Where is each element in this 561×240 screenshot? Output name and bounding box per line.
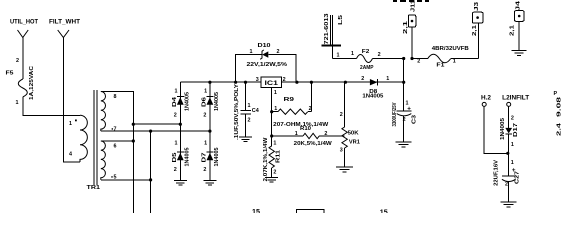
wire secondary pin 5 stub <box>101 179 151 181</box>
svg-text:3300UF/25V: 3300UF/25V <box>392 102 398 126</box>
svg-text:1: 1 <box>274 90 277 96</box>
wire vertical rail x150 <box>150 131 152 213</box>
junction dot <box>344 81 347 84</box>
svg-text:1: 1 <box>204 89 207 95</box>
svg-text:15: 15 <box>252 209 260 213</box>
svg-text:1: 1 <box>175 89 178 95</box>
junction dot <box>402 57 405 60</box>
diode D17 <box>500 116 519 176</box>
svg-text:20K,5%,1/4W: 20K,5%,1/4W <box>294 141 333 147</box>
svg-text:2AMP: 2AMP <box>360 65 374 71</box>
resistor R9 <box>272 82 330 128</box>
svg-text:1A,125VAC: 1A,125VAC <box>29 66 35 100</box>
svg-text:15: 15 <box>380 210 388 214</box>
svg-text:C27: C27 <box>515 171 521 184</box>
junction dot <box>179 123 182 126</box>
junction dot <box>244 81 247 84</box>
svg-text:2,1: 2,1 <box>403 21 409 34</box>
svg-text:R9: R9 <box>284 97 295 103</box>
svg-text:6: 6 <box>114 144 117 150</box>
fuse F5 <box>6 58 36 106</box>
svg-text:L5: L5 <box>338 15 344 25</box>
svg-text:VR1: VR1 <box>349 139 360 145</box>
svg-text:1: 1 <box>16 100 19 106</box>
junction dot <box>208 81 211 84</box>
junction dot <box>132 139 135 142</box>
svg-text:1N4005: 1N4005 <box>185 148 191 167</box>
svg-text:1: 1 <box>248 103 251 109</box>
svg-text:1: 1 <box>337 53 340 59</box>
transformer TR1 secondary top winding <box>101 92 117 133</box>
svg-text:1N4005: 1N4005 <box>214 148 220 167</box>
node UTIL_HOT label <box>10 19 38 26</box>
wire F2 node down to bus <box>403 59 405 83</box>
wire UTIL_HOT down to fuse <box>22 38 24 80</box>
wire secondary pin 8 to vertical rail <box>101 92 134 214</box>
svg-text:8: 8 <box>114 94 117 100</box>
junction dot <box>132 123 135 126</box>
capacitor C3 <box>392 82 418 141</box>
svg-text:2: 2 <box>378 52 381 58</box>
junction dot <box>506 152 509 155</box>
svg-text:D5: D5 <box>172 153 178 163</box>
svg-text:22V,1/2W,5%: 22V,1/2W,5% <box>247 62 288 68</box>
wire IC1 pin 1 down to resistor column <box>271 87 273 146</box>
junction dot <box>270 110 273 113</box>
svg-text:UTIL_HOT: UTIL_HOT <box>10 19 38 26</box>
svg-text:L2INFILT: L2INFILT <box>502 94 529 101</box>
diode D6 <box>202 89 221 119</box>
svg-text:2.07K,1%,1/4W: 2.07K,1%,1/4W <box>263 136 269 181</box>
svg-text:2,1: 2,1 <box>472 25 478 36</box>
svg-text:50K: 50K <box>348 130 359 136</box>
transformer TR1 core <box>94 90 97 185</box>
ground below J4 <box>512 50 527 55</box>
svg-text:1N4005: 1N4005 <box>500 118 506 140</box>
svg-text:P: P <box>554 91 558 97</box>
resistor R11 <box>263 136 282 181</box>
svg-text:2: 2 <box>417 59 420 65</box>
ground below C3 <box>396 142 412 147</box>
svg-text:TR1: TR1 <box>87 185 101 191</box>
fuse F2 <box>333 49 404 71</box>
fuse F1 <box>412 46 479 68</box>
cropped text fragments bottom edge <box>252 209 388 217</box>
svg-text:IC1: IC1 <box>265 80 279 87</box>
svg-text:J4: J4 <box>516 1 522 11</box>
port connector UTIL_HOT <box>18 30 29 38</box>
wire diode column D6/D7 <box>209 82 211 180</box>
wire fuse to transformer primary pin 1 <box>23 97 80 115</box>
zener diode D10 <box>247 43 288 68</box>
svg-text:2.4: 2.4 <box>557 123 561 136</box>
ground below VR1 <box>336 167 353 172</box>
svg-text:2: 2 <box>203 167 206 173</box>
svg-text:D17: D17 <box>513 123 519 137</box>
svg-text:R10: R10 <box>300 126 311 132</box>
node L2INFILT port <box>502 94 529 128</box>
transformer TR1 primary winding <box>69 115 87 162</box>
svg-text:2: 2 <box>361 76 364 82</box>
diode D5 <box>172 141 191 174</box>
svg-text:+: + <box>407 106 411 113</box>
svg-text:2: 2 <box>324 131 327 137</box>
svg-text:2: 2 <box>340 112 343 118</box>
regulator IC1 <box>256 77 286 96</box>
svg-text:FILT_WHT: FILT_WHT <box>49 19 80 26</box>
junction dot <box>234 81 237 84</box>
svg-text:R11: R11 <box>276 150 282 163</box>
diode D7 <box>202 141 221 174</box>
svg-text:1: 1 <box>69 121 72 127</box>
svg-text:F2: F2 <box>362 49 370 55</box>
ground below D5 <box>174 181 187 186</box>
junction dot <box>410 57 413 60</box>
svg-text:1: 1 <box>295 131 298 137</box>
svg-text:1: 1 <box>511 160 514 166</box>
svg-text:3: 3 <box>340 148 343 154</box>
ground below D7 <box>203 181 216 186</box>
diode D4 <box>172 89 191 119</box>
wire main DC bus <box>180 81 403 83</box>
svg-text:D10: D10 <box>258 43 271 49</box>
svg-text:2: 2 <box>505 182 508 188</box>
svg-text:C3: C3 <box>412 115 418 124</box>
svg-text:D7: D7 <box>202 153 208 163</box>
svg-text:1: 1 <box>273 140 276 146</box>
diode D8 <box>361 76 389 100</box>
potentiometer VR1 <box>340 82 360 167</box>
cropped text right edge <box>554 91 561 136</box>
capacitor C4 <box>234 82 259 140</box>
svg-text:721-6013: 721-6013 <box>324 13 330 44</box>
svg-text:2: 2 <box>174 113 177 119</box>
port connector FILT_WHT <box>58 30 69 38</box>
transformer TR1 label <box>87 185 101 191</box>
wire FILT_WHT down to primary pin 4 <box>63 38 80 163</box>
svg-text:2: 2 <box>174 167 177 173</box>
wire secondary pin 6 stub <box>101 140 134 142</box>
svg-text:2: 2 <box>273 169 276 175</box>
svg-text:2: 2 <box>283 77 286 83</box>
svg-text:3: 3 <box>256 77 259 83</box>
svg-text:1: 1 <box>511 142 514 148</box>
svg-text:1N4005: 1N4005 <box>185 92 191 111</box>
junction dot <box>208 130 211 133</box>
svg-text:D6: D6 <box>202 97 208 107</box>
connector J4 <box>510 1 525 50</box>
svg-text:1: 1 <box>274 106 277 112</box>
node H.2 port <box>481 94 508 153</box>
wire rail y124 to diode bridge <box>133 123 180 125</box>
ground below C4 <box>239 137 252 142</box>
inductor L5 <box>322 13 345 58</box>
svg-text:D4: D4 <box>172 97 178 107</box>
svg-text:1N4005: 1N4005 <box>214 92 220 111</box>
ground below C27 <box>501 202 517 207</box>
svg-text:1: 1 <box>204 141 207 147</box>
junction dot <box>149 130 152 133</box>
svg-text:2: 2 <box>16 58 19 64</box>
svg-text:2: 2 <box>309 106 312 112</box>
svg-text:9.08: 9.08 <box>557 97 561 117</box>
junction dot <box>295 81 298 84</box>
svg-text:C4: C4 <box>252 108 259 114</box>
connector J11 <box>403 0 417 59</box>
svg-text:2: 2 <box>277 49 280 55</box>
connector J3 <box>451 2 483 59</box>
svg-text:2: 2 <box>248 118 251 124</box>
svg-text:4BR/32UVFB: 4BR/32UVFB <box>432 46 469 52</box>
transformer TR1 secondary bottom winding <box>101 141 117 181</box>
ground below R11 <box>265 178 278 183</box>
junction dot <box>270 134 273 137</box>
svg-text:4: 4 <box>69 151 72 157</box>
junction dot <box>310 81 313 84</box>
svg-text:2: 2 <box>203 113 206 119</box>
svg-text:22UF,16V: 22UF,16V <box>493 159 499 185</box>
junction dot <box>402 81 405 84</box>
svg-text:1: 1 <box>386 76 389 82</box>
svg-text:F1: F1 <box>436 62 444 68</box>
svg-text:F5: F5 <box>6 71 14 77</box>
svg-text:J3: J3 <box>474 2 480 11</box>
wire zener bypass loop <box>236 55 297 83</box>
svg-text:1: 1 <box>453 59 456 65</box>
wire diode column D4/D5 <box>179 82 181 180</box>
svg-text:1: 1 <box>351 51 354 57</box>
svg-text:.1UF,50V,5%,POLY: .1UF,50V,5%,POLY <box>234 84 240 140</box>
svg-text:2: 2 <box>511 116 514 122</box>
svg-text:1N4005: 1N4005 <box>362 94 383 100</box>
svg-text:2,1: 2,1 <box>510 25 516 36</box>
svg-text:1: 1 <box>175 141 178 147</box>
wire secondary pin 7 rail y131 <box>101 130 210 132</box>
svg-text:H.2: H.2 <box>481 94 492 101</box>
svg-text:2: 2 <box>403 117 406 123</box>
capacitor C27 <box>493 159 520 201</box>
junction dot <box>149 178 152 181</box>
svg-text:1: 1 <box>250 49 253 55</box>
resistor R10 <box>272 126 345 147</box>
cropped text fragments top edge <box>393 0 429 2</box>
node FILT_WHT label <box>49 19 80 26</box>
